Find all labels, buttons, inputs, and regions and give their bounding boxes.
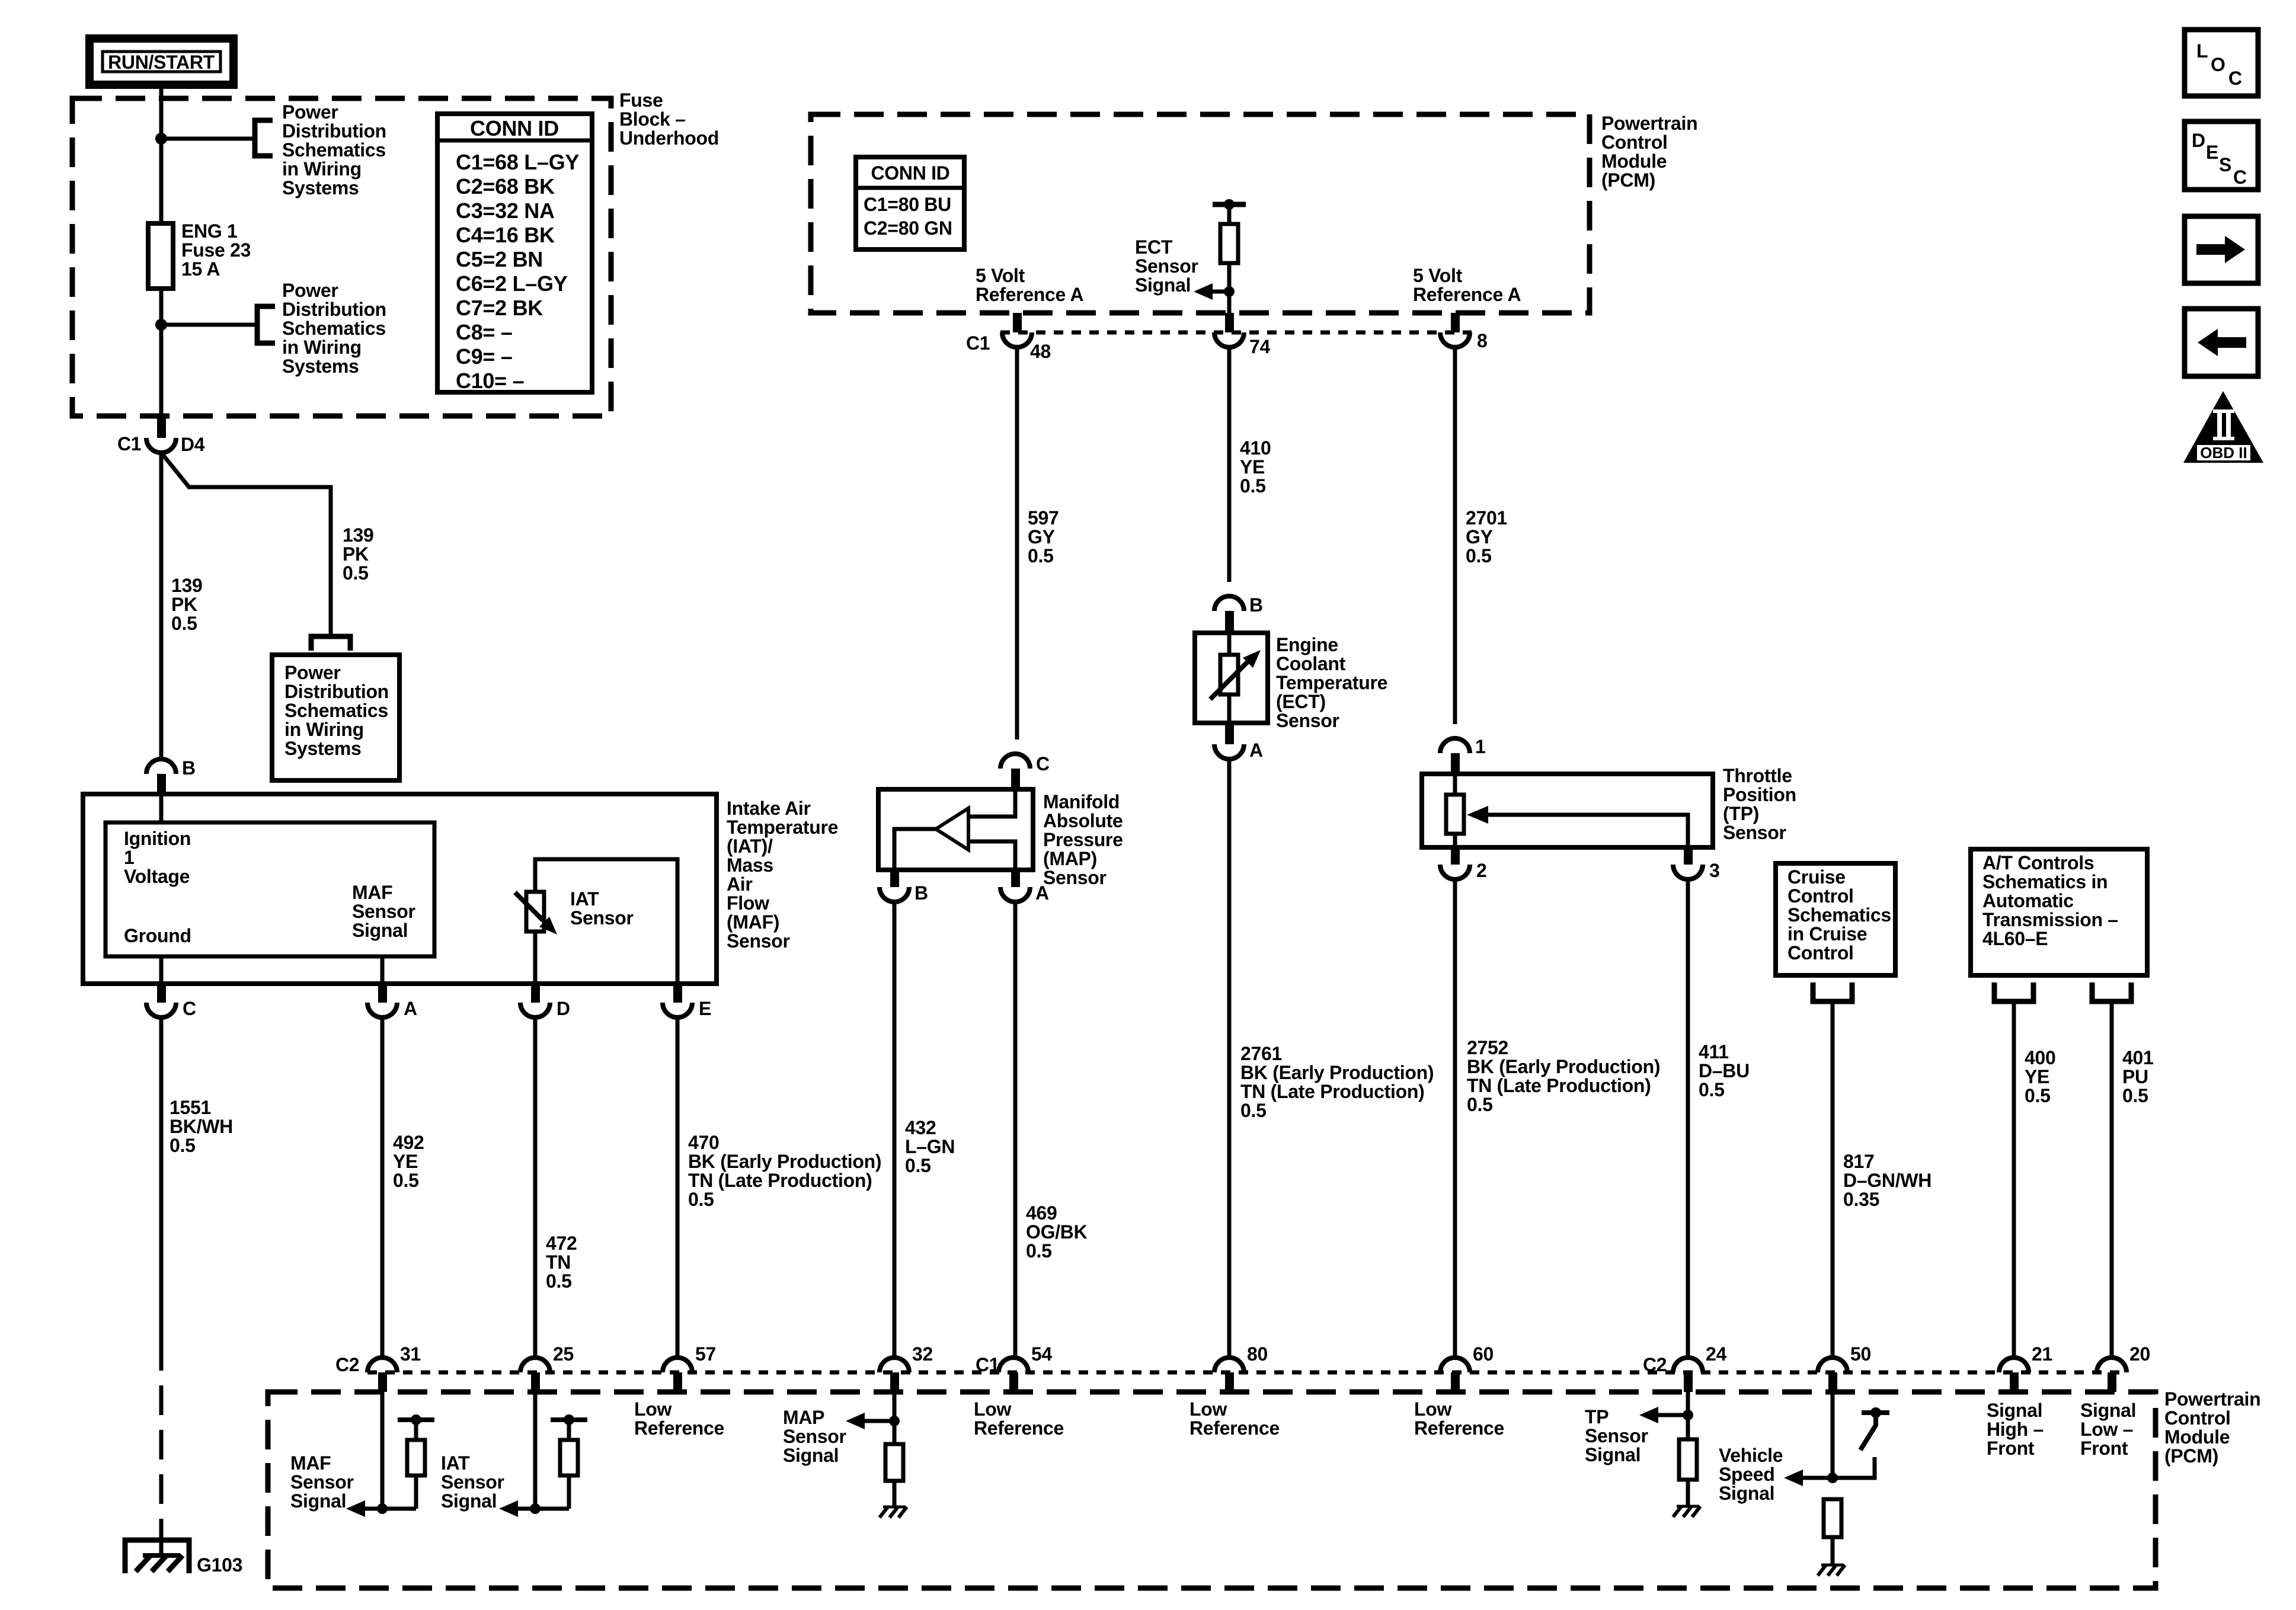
label wire 139 PK left [171, 575, 203, 634]
svg-text:472: 472 [546, 1233, 577, 1254]
wire ground pin C inside [159, 956, 164, 984]
svg-text:410: 410 [1240, 437, 1271, 459]
wire 2701 GY [1453, 347, 1457, 724]
svg-text:C: C [1036, 753, 1050, 774]
svg-text:E: E [699, 998, 711, 1019]
svg-text:in Wiring: in Wiring [282, 158, 362, 180]
wire MAF signal pin A inside [380, 956, 385, 984]
powertrain control module dashed box (top) [811, 114, 1590, 313]
CONN ID table (PCM) [856, 157, 964, 249]
svg-text:Reference: Reference [1189, 1417, 1280, 1439]
IAT sensor inner box [535, 859, 677, 984]
svg-text:0.5: 0.5 [1466, 545, 1492, 566]
svg-text:D4: D4 [181, 434, 205, 455]
wire TP internal top [1453, 774, 1457, 795]
svg-text:C1: C1 [117, 433, 141, 454]
svg-text:Reference: Reference [1414, 1417, 1504, 1439]
MAP sensor box [878, 789, 1033, 870]
svg-text:in Cruise: in Cruise [1787, 923, 1867, 945]
wire 2761 [1227, 759, 1232, 1357]
pin stub 8 PCM top [1451, 313, 1460, 332]
svg-text:MAF: MAF [352, 882, 392, 903]
svg-text:C1: C1 [976, 1354, 999, 1375]
label C1 top connector [966, 332, 990, 354]
A/T controls schematics box [1971, 849, 2147, 975]
svg-text:Sensor: Sensor [783, 1426, 846, 1447]
label pin 57 [695, 1343, 716, 1365]
svg-text:B: B [1249, 594, 1263, 616]
arrow TP sensor signal [1639, 1407, 1658, 1423]
svg-text:Reference A: Reference A [976, 284, 1083, 305]
label pin 60 [1473, 1343, 1494, 1365]
svg-text:5 Volt: 5 Volt [976, 265, 1025, 286]
svg-text:Flow: Flow [727, 892, 769, 914]
wire 410 YE [1227, 347, 1232, 582]
svg-text:Signal: Signal [441, 1490, 497, 1512]
connector pin 20 PCM bottom [2097, 1358, 2126, 1372]
wire 597 GY [1015, 347, 1019, 740]
connector pin 24 PCM bottom [1673, 1358, 1703, 1372]
label pin 24 [1706, 1343, 1726, 1365]
label pin 50 [1850, 1343, 1871, 1365]
wire ECT internal top [1227, 633, 1232, 655]
svg-text:BK/WH: BK/WH [170, 1116, 233, 1137]
svg-text:C2: C2 [1643, 1354, 1667, 1375]
label cruise control box [1787, 866, 1891, 964]
wire pin25 internal [533, 1387, 538, 1509]
connector bracket to power distribution (upper) [255, 120, 273, 156]
connector pin A ECT [1214, 744, 1244, 759]
svg-text:Module: Module [2164, 1426, 2230, 1448]
svg-text:0.5: 0.5 [343, 562, 369, 584]
label Fuse Block - Underhood [619, 89, 719, 149]
label pin C [183, 998, 196, 1019]
svg-text:Reference: Reference [634, 1417, 724, 1439]
svg-text:Signal: Signal [1719, 1483, 1774, 1504]
label TP Sensor Signal (PCM) [1585, 1406, 1648, 1465]
svg-text:Sensor: Sensor [1135, 255, 1198, 277]
svg-text:RUN/START: RUN/START [108, 52, 215, 73]
wire 432 L-GN [893, 902, 897, 1357]
svg-text:C2=68 BK: C2=68 BK [456, 174, 555, 199]
wire 411 D-BU [1686, 879, 1690, 1357]
svg-text:0.5: 0.5 [2025, 1085, 2051, 1106]
svg-text:Sensor: Sensor [441, 1471, 504, 1493]
svg-text:L: L [2196, 40, 2208, 62]
svg-text:Schematics in: Schematics in [1982, 871, 2108, 892]
svg-text:C1=68 L–GY: C1=68 L–GY [456, 150, 579, 174]
svg-text:32: 32 [912, 1343, 933, 1365]
svg-text:YE: YE [393, 1151, 418, 1172]
svg-text:Control: Control [2164, 1407, 2231, 1429]
svg-text:57: 57 [695, 1343, 716, 1365]
wire TP internal bottom [1453, 834, 1457, 847]
connector pin D [520, 1003, 550, 1017]
ground internal VSS [1821, 1564, 1844, 1567]
svg-text:ENG 1: ENG 1 [181, 220, 238, 242]
label ECT sensor [1276, 634, 1387, 731]
connector C above MAP [1000, 754, 1030, 769]
svg-text:Ignition: Ignition [124, 828, 191, 849]
label PCM top [1601, 113, 1697, 191]
svg-text:Speed: Speed [1719, 1464, 1775, 1485]
svg-text:D–GN/WH: D–GN/WH [1843, 1170, 1932, 1191]
label pin 54 [1031, 1343, 1052, 1365]
svg-text:Schematics: Schematics [1787, 904, 1891, 926]
switch label RUN/START [89, 39, 234, 85]
svg-text:Low: Low [634, 1398, 671, 1420]
svg-text:Pressure: Pressure [1043, 829, 1123, 850]
connector pin 57 PCM bottom [663, 1358, 692, 1372]
label Signal Low Front (20) [2080, 1400, 2136, 1459]
svg-text:Reference: Reference [974, 1417, 1064, 1439]
IAT thermistor arrow [515, 892, 543, 920]
label wire 2701 [1466, 507, 1507, 566]
wire pull-up bottom [1227, 263, 1232, 313]
svg-text:Vehicle: Vehicle [1719, 1445, 1783, 1466]
svg-text:Schematics: Schematics [284, 700, 388, 721]
label pin 20 [2129, 1343, 2150, 1365]
svg-text:Distribution: Distribution [282, 299, 386, 320]
connector bracket below cruise box [1813, 982, 1852, 1001]
svg-text:Power: Power [282, 280, 338, 301]
label pin 80 [1247, 1343, 1268, 1365]
connector 1 above TP [1440, 738, 1470, 753]
wire 401 PU [2110, 1001, 2114, 1357]
svg-text:Low: Low [1189, 1398, 1227, 1420]
wire IAT lower lead [533, 932, 538, 984]
svg-text:D: D [557, 998, 570, 1019]
junction node upper branch [155, 133, 167, 145]
svg-text:Low: Low [974, 1398, 1011, 1420]
svg-text:C7=2 BK: C7=2 BK [456, 296, 543, 320]
pin stub 2 TP [1451, 847, 1460, 865]
connector pin 32 PCM bottom [880, 1358, 909, 1372]
connector pin 60 PCM bottom [1440, 1358, 1470, 1372]
svg-text:Signal: Signal [1585, 1444, 1641, 1465]
svg-text:TN (Late Production): TN (Late Production) [1467, 1075, 1651, 1096]
svg-text:(TP): (TP) [1723, 803, 1759, 824]
svg-text:Sensor: Sensor [1723, 822, 1786, 843]
svg-text:74: 74 [1249, 336, 1270, 357]
svg-text:Engine: Engine [1276, 634, 1338, 655]
label pin 32 [912, 1343, 933, 1365]
connector pin E [663, 1003, 692, 1017]
icon DESC [2185, 121, 2258, 190]
label power distribution upper [282, 101, 386, 199]
connector pin 31 PCM bottom [367, 1358, 397, 1372]
resistor ECT pull-up [1220, 224, 1238, 263]
CONN ID table (fuse block) [437, 114, 592, 392]
label C2 bottom left [335, 1354, 359, 1375]
svg-text:(MAP): (MAP) [1043, 848, 1097, 869]
svg-text:Temperature: Temperature [1276, 672, 1387, 693]
svg-text:2752: 2752 [1467, 1037, 1508, 1058]
label pin 25 [553, 1343, 574, 1365]
label pin 31 [400, 1343, 421, 1365]
label C1 bottom [976, 1354, 999, 1375]
svg-text:A: A [1035, 882, 1049, 904]
svg-text:0.35: 0.35 [1843, 1189, 1879, 1210]
resistor TP [1446, 795, 1464, 834]
label wire 597 [1028, 507, 1059, 566]
svg-text:C9= –: C9= – [456, 344, 513, 369]
connector bracket A/T right [2092, 982, 2131, 1001]
label MAF Sensor Signal (PCM) [290, 1452, 354, 1512]
svg-text:MAF: MAF [290, 1452, 331, 1474]
label pin B ECT [1249, 594, 1263, 616]
wire pin31 internal [380, 1387, 385, 1509]
svg-text:BK (Early Production): BK (Early Production) [1240, 1062, 1434, 1083]
svg-text:OBD II: OBD II [2200, 444, 2247, 462]
label G103 [197, 1554, 242, 1576]
junction node MAP signal [889, 1416, 900, 1426]
table row C1=80 BU [864, 194, 951, 215]
svg-text:Systems: Systems [282, 177, 359, 199]
arrow MAF sensor signal [346, 1500, 365, 1517]
svg-text:0.5: 0.5 [2122, 1085, 2148, 1106]
connector B above ECT [1214, 596, 1244, 611]
junction node MAF signal [377, 1503, 388, 1514]
svg-text:C3=32 NA: C3=32 NA [456, 199, 555, 223]
svg-text:C5=2 BN: C5=2 BN [456, 247, 543, 271]
svg-text:Mass: Mass [727, 854, 773, 876]
label wire 2752 [1467, 1037, 1660, 1115]
label pin 3 TP [1709, 860, 1720, 881]
label power distribution lower [282, 280, 386, 377]
svg-text:Underhood: Underhood [619, 127, 719, 149]
junction node VSS [1827, 1473, 1838, 1483]
svg-text:A: A [404, 998, 417, 1019]
MAP internal wiring [968, 789, 1015, 817]
label pin E [699, 998, 711, 1019]
svg-text:Schematics: Schematics [282, 139, 386, 161]
svg-text:Voltage: Voltage [124, 866, 190, 887]
svg-text:G103: G103 [197, 1554, 242, 1576]
wire 2752 [1453, 879, 1457, 1357]
label TP sensor [1723, 765, 1796, 843]
thermistor IAT [526, 892, 544, 932]
svg-text:B: B [914, 882, 928, 904]
label pin 2 TP [1476, 860, 1487, 881]
svg-text:CONN ID: CONN ID [871, 162, 949, 184]
svg-text:0.5: 0.5 [1240, 475, 1266, 497]
label MAP Sensor Signal (PCM) [783, 1407, 846, 1466]
power distribution schematics box [272, 655, 399, 780]
svg-text:TN: TN [546, 1251, 571, 1273]
svg-text:54: 54 [1031, 1343, 1052, 1365]
svg-text:(IAT)/: (IAT)/ [727, 836, 773, 857]
svg-text:TN (Late Production): TN (Late Production) [688, 1170, 872, 1191]
svg-text:BK (Early Production): BK (Early Production) [1467, 1056, 1660, 1077]
svg-text:GY: GY [1466, 526, 1493, 548]
wire ECT internal bottom [1227, 694, 1232, 724]
svg-text:Power: Power [282, 101, 338, 123]
svg-text:Control: Control [1787, 885, 1854, 907]
svg-text:139: 139 [171, 575, 203, 596]
icon OBD II triangle [2183, 391, 2263, 463]
svg-text:Module: Module [1601, 151, 1667, 172]
svg-text:8: 8 [1477, 330, 1488, 351]
svg-text:Low: Low [1414, 1398, 1451, 1420]
svg-text:3: 3 [1709, 860, 1720, 881]
svg-text:470: 470 [688, 1132, 720, 1153]
svg-text:Sensor: Sensor [290, 1471, 354, 1493]
svg-text:Block –: Block – [619, 108, 686, 130]
label C1 [117, 433, 141, 454]
svg-text:80: 80 [1247, 1343, 1268, 1365]
svg-text:401: 401 [2122, 1047, 2154, 1068]
label Signal High Front (21) [1987, 1400, 2044, 1459]
label pin B MAP [914, 882, 928, 904]
label pin 48 [1030, 341, 1051, 362]
PCM bottom connector dotted line [367, 1371, 2127, 1375]
svg-text:Coolant: Coolant [1276, 653, 1346, 674]
label MAP sensor [1043, 791, 1123, 888]
svg-text:(PCM): (PCM) [2164, 1445, 2218, 1467]
resistor VSS load [1824, 1499, 1841, 1537]
pin stub 74 PCM top [1225, 313, 1234, 332]
pin stub 3 TP [1684, 847, 1693, 865]
label pin 8 [1477, 330, 1488, 351]
svg-text:ECT: ECT [1135, 236, 1173, 258]
svg-text:0.5: 0.5 [688, 1189, 714, 1210]
svg-text:PK: PK [171, 594, 197, 615]
label pin D [557, 998, 570, 1019]
label Low Reference (54) [974, 1398, 1064, 1439]
label wire 432 [905, 1117, 955, 1176]
svg-text:0.5: 0.5 [171, 613, 197, 634]
svg-text:YE: YE [2025, 1066, 2049, 1087]
svg-text:C1: C1 [966, 332, 990, 354]
svg-text:Sensor: Sensor [352, 901, 415, 922]
label wire 472 [546, 1233, 577, 1292]
pin stub A ECT [1225, 724, 1234, 744]
connector pin 21 PCM bottom [1999, 1358, 2029, 1372]
svg-text:Systems: Systems [284, 738, 362, 759]
svg-text:0.5: 0.5 [546, 1270, 572, 1292]
wire 492 YE [380, 1017, 385, 1357]
wire pin32 internal [893, 1387, 897, 1444]
svg-text:Signal: Signal [1135, 274, 1191, 296]
label IAT/MAF sensor [727, 798, 838, 952]
svg-text:0.5: 0.5 [393, 1170, 419, 1191]
connector pin C [146, 1003, 176, 1017]
svg-text:A/T Controls: A/T Controls [1982, 852, 2094, 873]
connector pin 74 [1214, 332, 1244, 347]
svg-text:PK: PK [343, 543, 369, 565]
svg-text:C: C [183, 998, 196, 1019]
label Low Reference (57) [634, 1398, 724, 1439]
svg-text:21: 21 [2032, 1343, 2052, 1365]
arrow MAP sensor signal [846, 1413, 865, 1429]
svg-text:31: 31 [400, 1343, 421, 1365]
VSS switch [1862, 1410, 1889, 1415]
wire 400 YE [2012, 1001, 2016, 1357]
wire pin50 internal [1831, 1387, 1835, 1478]
label PCM bottom [2164, 1388, 2260, 1467]
pin stub C MAP [1011, 769, 1020, 789]
pin stub B ECT [1225, 611, 1234, 633]
connector pin B MAP [880, 887, 909, 902]
label pin A [404, 998, 417, 1019]
svg-text:High –: High – [1987, 1419, 2044, 1440]
svg-text:L–GN: L–GN [905, 1136, 955, 1157]
svg-text:Signal: Signal [2080, 1400, 2136, 1421]
label wire 817 [1843, 1151, 1932, 1210]
arrow IAT sensor signal [499, 1500, 518, 1517]
svg-text:139: 139 [343, 524, 374, 546]
pin stub D [531, 984, 540, 1003]
connector pin 2 TP [1440, 865, 1470, 879]
wire pull-up top [1227, 204, 1232, 224]
connector pin 80 PCM bottom [1214, 1358, 1244, 1372]
resistor IAT pulldown [560, 1440, 578, 1475]
wire pin24 internal [1686, 1387, 1690, 1439]
powertrain control module dashed box (bottom) [268, 1392, 2156, 1588]
label wire 401 [2122, 1047, 2154, 1106]
svg-text:MAP: MAP [783, 1407, 824, 1428]
svg-text:411: 411 [1699, 1041, 1729, 1062]
svg-text:Sensor: Sensor [1043, 867, 1107, 888]
IAT/MAF sensor outer box [83, 794, 717, 984]
connector pin A MAP [1000, 887, 1030, 902]
svg-text:Reference A: Reference A [1413, 284, 1521, 305]
svg-text:C8= –: C8= – [456, 320, 513, 344]
svg-text:Distribution: Distribution [284, 681, 389, 702]
svg-text:Temperature: Temperature [727, 817, 838, 838]
svg-text:1551: 1551 [170, 1097, 211, 1118]
svg-text:Powertrain: Powertrain [1601, 113, 1697, 134]
svg-text:TN (Late Production): TN (Late Production) [1240, 1081, 1424, 1102]
svg-text:0.5: 0.5 [1467, 1094, 1493, 1115]
label wire 469 [1026, 1202, 1088, 1262]
connector bracket to power distribution (lower) [257, 306, 275, 343]
svg-text:S: S [2219, 154, 2231, 175]
connector B above MAF sensor [146, 759, 176, 774]
svg-text:Front: Front [1987, 1438, 2035, 1459]
svg-text:Distribution: Distribution [282, 120, 386, 142]
label pin 74 [1249, 336, 1270, 357]
svg-text:Intake Air: Intake Air [727, 798, 811, 819]
svg-text:Signal: Signal [290, 1490, 346, 1512]
svg-text:A: A [1249, 740, 1263, 761]
junction node lower branch [155, 319, 167, 331]
svg-text:400: 400 [2025, 1047, 2056, 1068]
MAF module inner box [105, 822, 434, 956]
wire 139 PK to MAF sensor [159, 453, 164, 758]
svg-text:48: 48 [1030, 341, 1051, 362]
label wire 410 [1240, 437, 1271, 497]
ground internal MAP [883, 1506, 906, 1509]
svg-text:1: 1 [124, 847, 135, 868]
svg-text:Schematics: Schematics [282, 318, 386, 339]
ECT pull-up resistor node bar [1213, 202, 1246, 207]
icon LOC [2185, 30, 2258, 96]
svg-text:Ground: Ground [124, 925, 191, 946]
svg-text:492: 492 [393, 1132, 424, 1153]
wire fuse to fuse-block bottom [159, 289, 164, 416]
ground internal TP [1677, 1505, 1699, 1508]
wire B into MAF module [159, 794, 164, 822]
label pin 21 [2032, 1343, 2052, 1365]
svg-text:C: C [2233, 167, 2247, 188]
svg-text:Cruise: Cruise [1787, 866, 1846, 888]
svg-text:0.5: 0.5 [170, 1135, 196, 1156]
svg-text:0.5: 0.5 [1240, 1100, 1267, 1121]
connector bracket A/T left [1994, 982, 2033, 1001]
pin stub E [673, 984, 682, 1003]
